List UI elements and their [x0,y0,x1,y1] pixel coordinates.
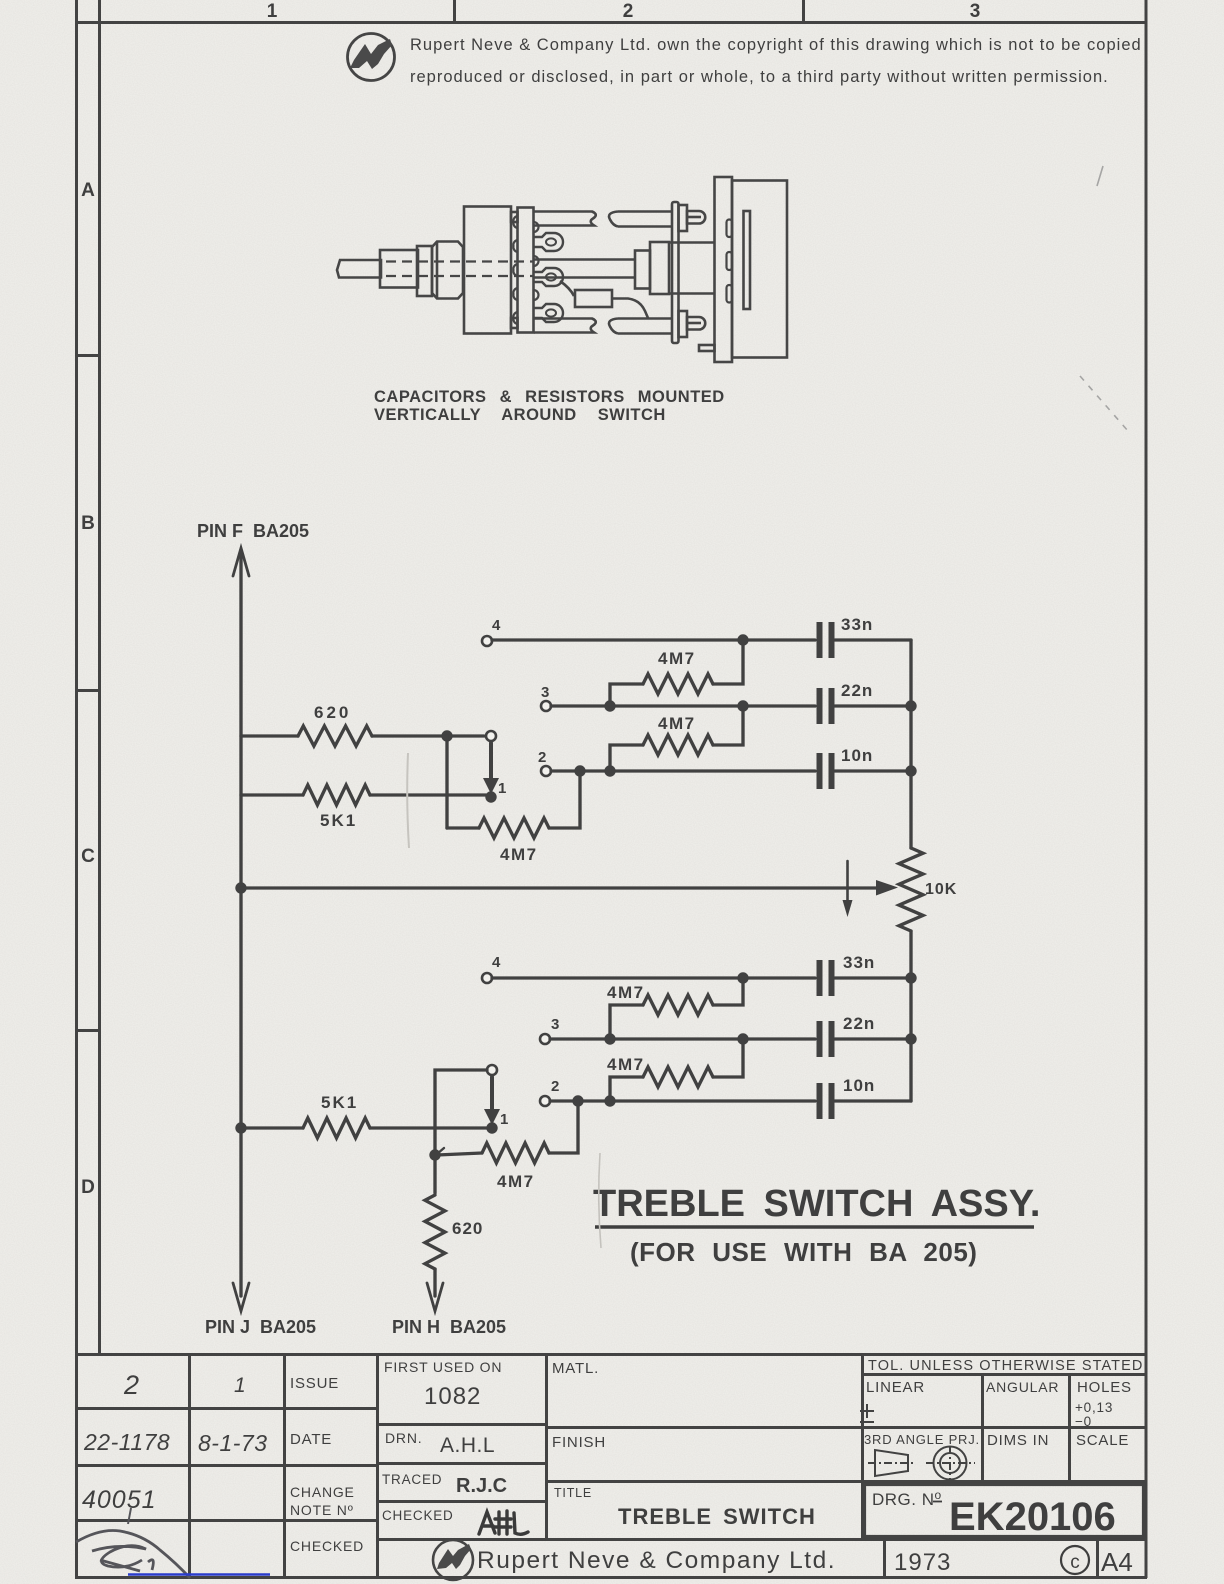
junction node2/wiper-R (upper) [574,765,585,776]
junction node4/4M7 (upper) [737,634,748,645]
copyright symbol [1061,1546,1089,1574]
wire pot wiper (long) [241,886,877,889]
bottom bolt [687,317,705,330]
junction node3/4M7 left (upper) [604,700,615,711]
svg-text:EK20106: EK20106 [949,1495,1116,1539]
resistor 620 (lower, vertical) [425,1195,445,1269]
arrow tick at 620/4M7 junction [437,1148,444,1154]
resistor 4M7 bridging 3-4 (upper) [610,684,643,706]
resistor 4M7 bridging 3-4 (lower) [610,1005,643,1039]
contact 2 (lower, open circle) [540,1096,550,1106]
arrowhead pot wiper [876,880,898,896]
svg-text:HOLES: HOLES [1077,1379,1132,1396]
wire node4 row (upper) [492,638,815,641]
svg-text:4: 4 [492,954,501,971]
junction 620/4M7 (lower) [429,1149,440,1160]
svg-text:1: 1 [234,1374,246,1397]
signature scribble [76,1508,190,1578]
contact 4 (lower, open circle) [482,973,492,983]
wire node2 row (lower) [550,1099,815,1102]
svg-text:33n: 33n [843,953,875,972]
locating pin [699,345,715,351]
svg-text:NOTE Nº: NOTE Nº [290,1502,354,1518]
svg-text:PIN J BA205: PIN J BA205 [205,1317,316,1337]
shaft collar block [380,250,418,288]
blue pen underline [128,1573,270,1576]
linear tolerance symbol [860,1404,874,1422]
svg-text:DIMS IN: DIMS IN [987,1432,1049,1449]
resistor 4M7 (wiper, lower) [482,1143,549,1163]
svg-text:33n: 33n [841,615,873,634]
svg-text:22n: 22n [841,681,873,700]
svg-text:TRACED: TRACED [382,1472,442,1487]
svg-text:ISSUE: ISSUE [290,1375,339,1392]
wire wiper contact to left riser (lower) [435,1070,487,1193]
svg-text:TOL. UNLESS OTHERWISE STATED: TOL. UNLESS OTHERWISE STATED [868,1358,1143,1374]
svg-text:1: 1 [498,780,506,797]
svg-text:620: 620 [452,1219,483,1238]
svg-text:10K: 10K [925,881,957,898]
bottom long lead piece 2 [609,319,672,334]
svg-text:4M7: 4M7 [607,983,645,1002]
vertically mounted component wire from lug 2 [560,281,574,296]
top spacer nut [679,205,688,231]
wire 5K1 branch (lower) [241,1126,487,1129]
switch mounting plate [744,211,751,309]
contact 4 (upper, open circle) [482,636,492,646]
faint crease [407,753,409,848]
centre shaft to rear section [534,258,636,261]
svg-text:10n: 10n [843,1076,875,1095]
switch shaft [337,260,381,278]
wire cap 22n to bus (upper) [835,704,911,707]
junction node2/4M7 (upper) [604,765,615,776]
svg-text:TITLE: TITLE [554,1486,592,1500]
junction bus/33n (lower) [905,972,916,983]
third angle projection symbol [868,1446,975,1481]
wire cap 10n to bus (upper) [835,769,911,772]
svg-text:D: D [81,1177,95,1198]
rear bushing stack [635,251,650,289]
capacitor 22n (upper) [820,688,832,724]
arrow PIN H (down) [427,1283,443,1311]
wire cap 33n to bus (upper) [835,638,911,641]
svg-text:LINEAR: LINEAR [866,1379,925,1396]
svg-text:TREBLE SWITCH: TREBLE SWITCH [618,1504,816,1529]
resistor 4M7 (wiper, upper) [479,818,549,838]
wire 620 branch [241,734,447,737]
svg-text:4M7: 4M7 [658,649,696,668]
terminal lug 1 [534,233,563,251]
capacitor 22n (lower) [820,1021,832,1057]
junction bus/22n (lower) [905,1033,916,1044]
svg-text:3: 3 [970,1,981,22]
wire junction down to wiper resistor [445,736,448,828]
svg-text:ANGULAR: ANGULAR [986,1379,1059,1395]
svg-text:CAPACITORS & RESISTORS MOUNTED: CAPACITORS & RESISTORS MOUNTED [374,388,725,406]
junction node4/4M7 (lower) [737,972,748,983]
svg-text:4: 4 [492,617,501,634]
svg-text:FINISH: FINISH [552,1434,606,1451]
arrow PIN F (up) [233,548,249,576]
svg-text:CHECKED: CHECKED [382,1508,454,1523]
svg-text:4M7: 4M7 [658,714,696,733]
capacitor 10n (lower) [820,1083,832,1119]
svg-text:reproduced or disclosed, in pa: reproduced or disclosed, in part or whol… [410,68,1109,86]
svg-text:5K1: 5K1 [321,1093,358,1112]
wire to 4M7 [447,826,479,829]
svg-text:10n: 10n [841,746,873,765]
junction node2/wiper-R (lower) [572,1095,583,1106]
wiper contact (open circle, upper) [486,731,496,741]
svg-text:VERTICALLY AROUND SWITCH: VERTICALLY AROUND SWITCH [374,406,666,424]
wire 4M7 to node2 row [549,771,580,828]
junction on 620 wire [441,730,452,741]
svg-text:FIRST USED ON: FIRST USED ON [384,1359,502,1375]
contact 3 (upper, open circle) [541,701,551,711]
mounting panel front plate [715,177,733,362]
svg-text:C: C [81,846,95,867]
svg-text:CHANGE: CHANGE [290,1484,355,1500]
svg-text:SCALE: SCALE [1076,1432,1129,1449]
wire cap 10n to bus (lower) [835,1099,911,1102]
capacitor 33n (upper) [820,622,832,658]
bus wire down to pot [909,640,912,848]
wire main left riser F to J [239,550,242,1296]
top long lead piece 2 [609,212,672,227]
top bolt [687,211,705,224]
svg-text:c: c [1070,1552,1080,1573]
svg-text:3: 3 [551,1016,559,1033]
svg-text:+0,13: +0,13 [1075,1400,1113,1415]
terminal lug 3 [534,304,563,322]
svg-text:4M7: 4M7 [607,1055,645,1074]
svg-text:PIN F BA205: PIN F BA205 [197,521,309,541]
resistor 5K1 (lower) [303,1118,370,1138]
top long lead piece 1 with break [534,212,596,226]
wire node2 down to wiper resistor (lower) [549,1101,578,1153]
junction 5K1 on left riser (lower) [235,1122,246,1133]
retaining ring [417,246,432,296]
svg-text:A4: A4 [1101,1547,1133,1577]
svg-text:PIN H BA205: PIN H BA205 [392,1317,506,1337]
svg-text:−0: −0 [1075,1414,1092,1429]
mounting panel rear slab [732,181,787,358]
resistor 4M7 bridging 2-3 (lower) [610,1077,643,1101]
svg-text:3: 3 [541,684,549,701]
bus wire pot to lower bank [909,931,912,1101]
printed labels [290,1359,1132,1554]
node 1 pole (lower) [486,1122,497,1133]
wire cap 22n to bus (lower) [835,1037,911,1040]
dashed centrelines [386,262,534,277]
wire node2 row (upper) [551,769,815,772]
svg-text:DATE: DATE [290,1431,332,1448]
contact 3 (lower, open circle) [540,1034,550,1044]
vertically mounted component body [575,290,612,307]
wire junction to wiper contact [447,734,484,737]
wire node4 row (lower) [492,976,815,979]
bottom long lead piece 1 with break [534,319,596,333]
switch wafer (scalloped) [518,208,534,333]
svg-text:Rupert Neve & Company Ltd. own: Rupert Neve & Company Ltd. own the copyr… [410,36,1142,54]
arrow PIN J (down) [233,1283,249,1311]
arrow wiper to pole 1 (lower) [490,1077,494,1113]
capacitor 10n (upper) [820,753,832,789]
svg-text:DRN.: DRN. [385,1430,422,1446]
svg-text:8-1-73: 8-1-73 [198,1430,267,1456]
terminal lug 2 [534,268,563,286]
wiper contact (open circle, lower) [487,1065,497,1075]
junction node3/4M7 right (lower) [737,1033,748,1044]
capacitor 33n (lower) [820,960,832,996]
svg-text:1082: 1082 [424,1383,481,1410]
logo (top) [348,34,395,81]
svg-text:1: 1 [500,1111,508,1128]
svg-text:A.H.L: A.H.L [440,1434,495,1457]
wafer tie rod [672,202,679,343]
wire node3 row (lower) [550,1037,815,1040]
junction bus/10n (upper) [905,765,916,776]
svg-text:CHECKED: CHECKED [290,1538,364,1554]
svg-text:1973: 1973 [894,1549,951,1576]
contact 2 (upper, open circle) [541,766,551,776]
caption [374,388,725,424]
stray scratch marks [1080,166,1128,431]
svg-text:TREBLE SWITCH ASSY.: TREBLE SWITCH ASSY. [593,1183,1040,1225]
svg-text:A: A [81,180,95,201]
svg-text:4M7: 4M7 [497,1172,535,1191]
svg-text:2: 2 [551,1078,559,1095]
node 1 pole (upper) [485,791,496,802]
svg-text:(FOR USE WITH BA 205): (FOR USE WITH BA 205) [630,1237,977,1267]
junction wiper feed on left riser [235,882,246,893]
issue / date entries (pencil) [82,1370,267,1514]
svg-text:1: 1 [267,1,278,22]
resistor 5K1 (upper) [303,785,370,805]
wire node3 row (upper) [551,704,815,707]
svg-text:DRG. No: DRG. No [872,1488,942,1509]
resistor 620 (upper) [298,726,372,746]
wire 5K1 branch [241,793,486,796]
wire 620 to PIN H arrow [433,1269,436,1296]
svg-text:620: 620 [314,703,351,722]
body-wafer nubs [511,212,518,222]
zone numbers and letters (decorative) [81,1,980,1198]
svg-text:40051: 40051 [82,1486,157,1514]
arrow wiper to pole 1 (upper) [489,743,493,782]
junction node2/4M7 (lower) [604,1095,615,1106]
svg-text:3RD ANGLE PRJ.: 3RD ANGLE PRJ. [864,1432,980,1447]
svg-text:22n: 22n [843,1014,875,1033]
company logo (bottom) [433,1540,473,1580]
threaded bushing [432,242,463,299]
svg-text:2: 2 [123,1370,139,1400]
svg-text:4M7: 4M7 [500,845,538,864]
svg-text:B: B [81,513,95,534]
svg-text:R.J.C: R.J.C [456,1475,507,1497]
wire 4M7 to junction (lower) [437,1153,482,1155]
checked scrawl AHL [479,1511,528,1534]
vertically mounted component wire to lead [612,299,648,319]
bottom spacer nut [679,311,688,337]
junction node3/4M7 left (lower) [604,1033,615,1044]
svg-text:MATL.: MATL. [552,1360,599,1377]
arrow rotation indicator [846,861,849,902]
panel slots [727,220,733,238]
rear body outline to panel [669,241,714,244]
junction bus/22n (upper) [905,700,916,711]
svg-text:5K1: 5K1 [320,811,357,830]
svg-text:22-1178: 22-1178 [83,1429,170,1455]
junction node3/4M7 right (upper) [737,700,748,711]
switch body [464,207,511,334]
svg-text:2: 2 [623,1,634,22]
svg-text:2: 2 [538,749,546,766]
resistor 4M7 bridging 2-3 (upper) [610,745,643,771]
svg-text:Rupert Neve & Company Ltd.: Rupert Neve & Company Ltd. [477,1547,836,1574]
wire cap 33n to bus (lower) [835,976,911,979]
potentiometer 10K track [899,848,923,931]
